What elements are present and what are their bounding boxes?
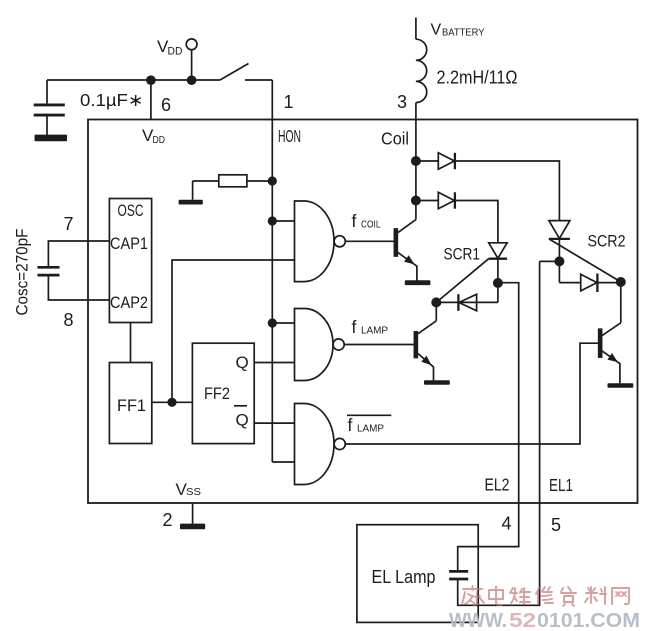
svg-text:CAP2: CAP2 xyxy=(110,294,148,312)
svg-text:COIL: COIL xyxy=(361,219,381,231)
svg-text:7: 7 xyxy=(64,214,74,234)
svg-text:CAP1: CAP1 xyxy=(110,235,148,253)
svg-text:Q: Q xyxy=(236,353,249,372)
svg-text:EL2: EL2 xyxy=(485,475,510,495)
svg-text:DD: DD xyxy=(153,134,166,146)
svg-text:OSC: OSC xyxy=(118,202,144,220)
svg-text:WWW.: WWW. xyxy=(449,609,507,631)
svg-text:SS: SS xyxy=(186,486,201,498)
svg-text:BATTERY: BATTERY xyxy=(442,27,485,39)
svg-text:FF2: FF2 xyxy=(204,384,230,403)
svg-text:f: f xyxy=(352,211,357,231)
svg-text:3: 3 xyxy=(397,92,407,112)
svg-text:Coil: Coil xyxy=(381,129,409,149)
svg-text:LAMP: LAMP xyxy=(357,423,384,435)
svg-text:0.1µF∗: 0.1µF∗ xyxy=(80,90,144,110)
svg-text:f: f xyxy=(348,415,353,435)
svg-text:HON: HON xyxy=(278,126,301,146)
svg-text:Q: Q xyxy=(236,411,249,430)
svg-text:2: 2 xyxy=(163,510,173,530)
svg-text:EL Lamp: EL Lamp xyxy=(372,567,436,587)
svg-text:LAMP: LAMP xyxy=(361,325,388,337)
svg-text:52: 52 xyxy=(509,609,536,631)
svg-text:FF1: FF1 xyxy=(117,396,146,415)
svg-text:DD: DD xyxy=(168,46,183,58)
svg-text:Cosc=270pF: Cosc=270pF xyxy=(14,229,32,316)
svg-text:SCR2: SCR2 xyxy=(588,232,626,251)
svg-text:0101.COM: 0101.COM xyxy=(537,609,640,631)
svg-text:8: 8 xyxy=(64,310,74,330)
svg-text:6: 6 xyxy=(161,95,171,115)
svg-text:f: f xyxy=(352,317,357,337)
svg-text:1: 1 xyxy=(284,92,294,112)
svg-text:2.2mH/11Ω: 2.2mH/11Ω xyxy=(437,68,518,88)
svg-text:4: 4 xyxy=(502,514,512,534)
svg-text:5: 5 xyxy=(551,515,561,535)
svg-text:V: V xyxy=(431,22,442,39)
svg-text:EL1: EL1 xyxy=(549,475,573,495)
svg-text:SCR1: SCR1 xyxy=(444,246,481,264)
